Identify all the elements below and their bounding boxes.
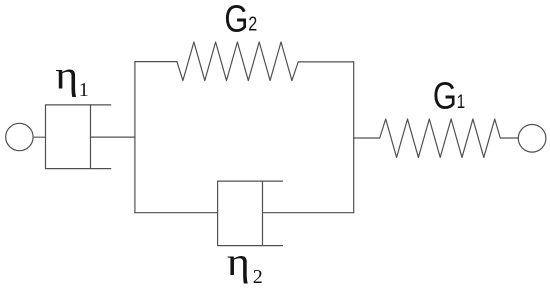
dashpot eta2 cylinder (218, 181, 283, 246)
wire: left terminal to dashpot eta1 (33, 136, 45, 138)
svg-text:G: G (433, 76, 457, 118)
wire: dashpot eta2 rod to right vertical (263, 212, 354, 214)
spring G1 (380, 119, 501, 157)
label eta1 (55, 54, 89, 101)
wire: spring G1 to right terminal (500, 137, 518, 139)
label G2 (224, 0, 257, 40)
wire: top rail left segment (135, 61, 177, 63)
svg-text:η: η (227, 241, 250, 285)
svg-text:η: η (55, 54, 78, 98)
right terminal circle (518, 125, 546, 153)
wire: bottom rail left segment (135, 212, 218, 214)
svg-text:1: 1 (457, 90, 466, 112)
spring G2 (177, 42, 298, 81)
svg-text:G: G (224, 0, 248, 40)
dashpot eta1 piston (90, 105, 92, 169)
node/wire: parallel block left vertical (134, 62, 136, 213)
wire: right vertical to spring G1 (354, 137, 380, 139)
left terminal circle (6, 123, 33, 150)
dashpot eta2 piston (262, 181, 264, 246)
svg-text:2: 2 (248, 13, 257, 35)
wire: top rail right segment (298, 61, 354, 63)
label eta2 (227, 241, 263, 288)
dashpot eta1 cylinder (46, 105, 111, 169)
svg-text:2: 2 (253, 266, 263, 288)
svg-text:1: 1 (79, 79, 89, 101)
label G1 (433, 76, 465, 118)
wire: dashpot eta1 rod to parallel block (91, 136, 135, 138)
node/wire: parallel block right vertical (353, 62, 355, 213)
